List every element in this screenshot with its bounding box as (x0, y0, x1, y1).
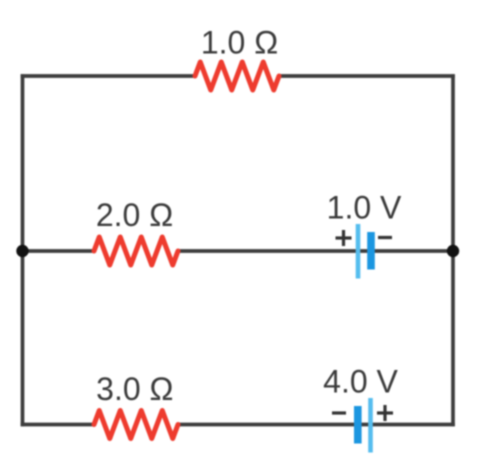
svg-text:4.0 V: 4.0 V (323, 364, 398, 400)
svg-text:3.0 Ω: 3.0 Ω (96, 371, 173, 407)
svg-text:1.0 Ω: 1.0 Ω (201, 25, 278, 61)
svg-text:2.0 Ω: 2.0 Ω (96, 197, 173, 233)
svg-text:1.0 V: 1.0 V (327, 190, 402, 226)
